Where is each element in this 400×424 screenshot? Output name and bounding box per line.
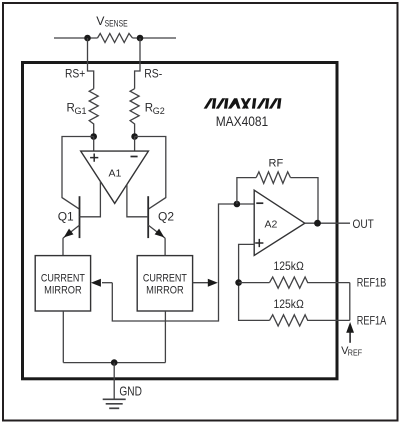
wire left mirror to ground rail — [62, 311, 64, 363]
VREF arrow — [349, 332, 351, 343]
wire RS- vertical with jog — [135, 38, 140, 89]
current mirror right box — [137, 256, 192, 311]
label A1 minus — [131, 156, 138, 158]
label A2 plus — [255, 239, 263, 247]
svg-text:G1: G1 — [75, 106, 87, 116]
svg-text:CURRENT: CURRENT — [41, 272, 85, 284]
transistor Q2 bar — [147, 196, 149, 238]
svg-text:REF1A: REF1A — [357, 314, 387, 328]
node RS- junction dot — [137, 35, 144, 42]
wire Q2 collector branch — [135, 137, 166, 210]
chip boundary box — [23, 63, 338, 379]
svg-text:MIRROR: MIRROR — [146, 285, 184, 297]
transistor Q2 emitter — [148, 225, 165, 238]
resistor RG1 — [89, 89, 98, 137]
resistor RF — [256, 172, 290, 184]
svg-text:MAX4081: MAX4081 — [216, 114, 269, 130]
svg-text:MIRROR: MIRROR — [44, 285, 82, 297]
wire left input to A1 — [93, 137, 95, 152]
svg-text:REF: REF — [348, 348, 362, 358]
node ground dot — [111, 359, 118, 366]
svg-text:Q2: Q2 — [158, 210, 174, 224]
wire Q1 collector branch — [62, 137, 94, 210]
wire A2 output — [305, 222, 350, 224]
svg-text:Q1: Q1 — [58, 209, 74, 223]
node B junction dot right — [131, 133, 138, 140]
svg-text:G2: G2 — [153, 106, 165, 116]
svg-text:A2: A2 — [265, 218, 278, 230]
wire Q2 emitter to mirror — [164, 238, 166, 256]
wire mirror output arrow from right box — [193, 282, 209, 284]
resistor 125k upper — [270, 277, 350, 288]
svg-text:CURRENT: CURRENT — [143, 272, 187, 284]
ground — [103, 399, 126, 408]
svg-text:RS+: RS+ — [65, 67, 85, 81]
resistor VSENSE — [98, 34, 133, 43]
wire Q1 base to A1 — [80, 181, 101, 216]
current mirror left box — [35, 256, 90, 311]
resistor RG2 — [130, 89, 139, 137]
svg-text:125kΩ: 125kΩ — [274, 259, 304, 273]
wire RS+ vertical with jog — [88, 38, 94, 89]
svg-text:REF1B: REF1B — [357, 276, 387, 290]
resistor 125k lower — [270, 315, 350, 326]
wire REF1B line — [239, 282, 270, 284]
wire top sense line — [54, 37, 176, 39]
wire right input to A1 — [134, 137, 136, 152]
wire external tie REF1B-REF1A — [349, 283, 351, 321]
svg-text:A1: A1 — [109, 167, 122, 179]
wire RF feedback loop — [237, 178, 256, 204]
svg-text:RS-: RS- — [144, 67, 162, 81]
op-amp A1 — [81, 151, 149, 203]
node RS+ junction dot — [84, 35, 91, 42]
wire minus node — [112, 204, 254, 321]
op-amp A2 — [254, 190, 305, 255]
label A2 minus — [256, 202, 263, 204]
svg-text:125kΩ: 125kΩ — [274, 297, 304, 311]
node output dot — [314, 220, 321, 227]
wire mirror node arrow into left box — [102, 282, 112, 284]
node plus dot — [235, 279, 242, 286]
svg-text:GND: GND — [119, 384, 141, 399]
wire right mirror to ground rail — [164, 311, 166, 363]
node A junction dot left — [90, 133, 97, 140]
svg-text:RF: RF — [269, 158, 284, 170]
wire Q1 emitter to mirror — [62, 238, 64, 256]
wire plus input path — [239, 244, 270, 320]
node minus input dot — [234, 201, 241, 208]
svg-text:SENSE: SENSE — [105, 19, 128, 30]
wire ground stem — [113, 363, 115, 399]
svg-text:OUT: OUT — [353, 217, 375, 231]
wire ground rail — [63, 362, 165, 364]
wire Q2 base to A1 — [127, 185, 148, 217]
label A1 plus — [90, 154, 98, 162]
transistor Q1 emitter — [63, 225, 80, 238]
transistor Q1 bar — [79, 196, 81, 238]
logo MAXIM — [204, 98, 282, 108]
